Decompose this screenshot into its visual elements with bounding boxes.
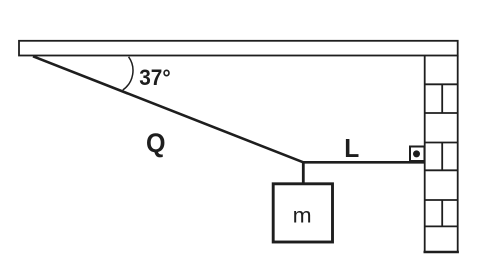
svg-text:Q: Q [146,128,166,158]
svg-text:m: m [293,204,312,227]
svg-text:L: L [344,135,359,163]
svg-text:37°: 37° [139,65,171,90]
